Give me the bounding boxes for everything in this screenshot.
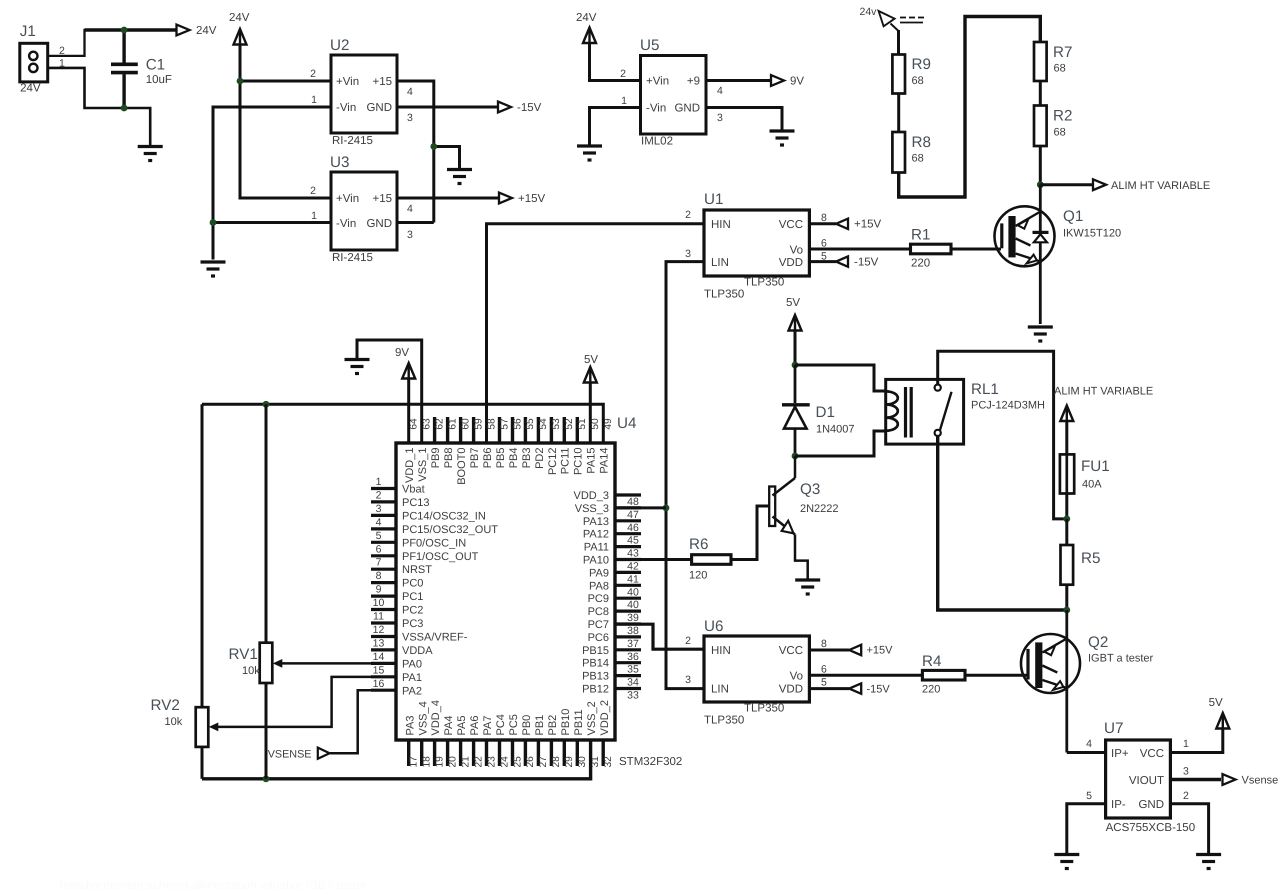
resistor R5: [1061, 545, 1074, 585]
svg-text:-Vin: -Vin: [336, 218, 356, 230]
svg-text:120: 120: [689, 570, 707, 582]
svg-text:2N2222: 2N2222: [800, 503, 839, 515]
svg-text:U3: U3: [330, 154, 349, 171]
svg-text:PB6: PB6: [482, 448, 494, 469]
power arrow 24V (U5): [583, 28, 596, 44]
svg-text:20: 20: [447, 756, 458, 768]
resistor R1: [911, 244, 952, 254]
junction RV1 top: [263, 401, 270, 408]
wire Q2 collector-emitter vertical: [1065, 610, 1068, 753]
ground (U7 GND): [1196, 855, 1221, 869]
net arrow -15V in (U1): [836, 256, 848, 266]
svg-text:+Vin: +Vin: [336, 193, 359, 205]
svg-text:VDDA: VDDA: [402, 645, 433, 657]
svg-text:VDD_2: VDD_2: [599, 700, 611, 735]
svg-text:VSS_2: VSS_2: [586, 701, 598, 735]
svg-text:Vsense: Vsense: [1242, 775, 1279, 787]
svg-text:68: 68: [1054, 63, 1066, 75]
svg-text:PA13: PA13: [583, 516, 609, 528]
svg-text:D1: D1: [816, 404, 835, 421]
svg-text:TLP350: TLP350: [704, 715, 744, 727]
svg-text:PC1: PC1: [402, 591, 423, 603]
svg-text:-15V: -15V: [517, 102, 542, 114]
wire to mid ground: [434, 147, 460, 170]
svg-text:PC12: PC12: [547, 448, 559, 476]
svg-text:R9: R9: [912, 56, 931, 73]
svg-text:VDD_3: VDD_3: [574, 490, 609, 502]
svg-text:4: 4: [407, 203, 413, 215]
svg-text:32: 32: [603, 756, 614, 768]
ground (Q1 emitter): [1028, 327, 1053, 341]
wire U5 GND to ground: [706, 108, 782, 132]
svg-text:VDD_4: VDD_4: [430, 700, 442, 735]
svg-text:24V: 24V: [20, 83, 41, 95]
RV2 wiper arrow: [209, 723, 219, 732]
svg-text:2: 2: [310, 68, 316, 80]
wire FU1 to R5 node: [1065, 494, 1068, 519]
wire 24V down to U3 +Vin: [240, 45, 331, 199]
wire 5V rail to PA14: [202, 404, 603, 443]
wire U7 GND to ground: [1170, 804, 1208, 853]
fuse FU1: [1060, 454, 1074, 493]
transistor Q1: [995, 206, 1055, 266]
net arrow +15V in (U6): [849, 645, 861, 655]
junction C1 bottom: [121, 105, 128, 112]
svg-text:9V: 9V: [790, 76, 804, 88]
DC-DC converter U3: [331, 172, 397, 250]
svg-text:FU1: FU1: [1081, 458, 1110, 475]
junction RV1 bottom: [263, 775, 270, 782]
svg-text:24V: 24V: [576, 12, 597, 24]
svg-text:VIOUT: VIOUT: [1129, 775, 1164, 787]
wire 24V to U2 +Vin: [240, 80, 331, 83]
svg-text:5: 5: [821, 677, 827, 689]
svg-text:PC15/OSC32_OUT: PC15/OSC32_OUT: [402, 524, 498, 536]
svg-text:U1: U1: [704, 191, 723, 208]
wire U7 IP- to ground: [1067, 804, 1106, 853]
diode D1: [782, 365, 810, 456]
svg-text:PA6: PA6: [469, 716, 481, 736]
svg-text:PA4: PA4: [443, 716, 455, 736]
svg-text:R7: R7: [1053, 44, 1072, 61]
junction -Vin rail: [210, 219, 217, 226]
svg-text:38: 38: [627, 625, 639, 637]
svg-text:ALIM HT VARIABLE: ALIM HT VARIABLE: [1111, 180, 1210, 192]
svg-text:TLP350: TLP350: [744, 277, 784, 289]
svg-text:R8: R8: [912, 134, 931, 151]
net arrow VSENSE: [318, 748, 330, 759]
svg-text:ACS755XCB-150: ACS755XCB-150: [1106, 822, 1196, 834]
svg-text:PA8: PA8: [589, 580, 609, 592]
svg-text:U4: U4: [617, 415, 636, 432]
wire U3 +15 to +15V flag: [397, 197, 499, 200]
svg-text:2: 2: [685, 209, 691, 221]
svg-text:28: 28: [551, 756, 562, 768]
svg-text:TLP350: TLP350: [744, 703, 784, 715]
wire U6 Vo to R4: [809, 674, 922, 677]
svg-text:41: 41: [627, 573, 639, 585]
svg-text:R2: R2: [1053, 108, 1072, 125]
svg-text:TLP350: TLP350: [704, 289, 744, 301]
svg-text:R4: R4: [922, 653, 941, 670]
svg-text:PB14: PB14: [582, 658, 609, 670]
svg-text:2: 2: [685, 635, 691, 647]
svg-text:55: 55: [525, 418, 536, 430]
svg-text:VDD: VDD: [779, 257, 803, 269]
svg-text:3: 3: [717, 112, 723, 124]
wire D1 top to relay coil: [795, 365, 887, 391]
svg-text:IGBT a tester: IGBT a tester: [1088, 653, 1154, 665]
svg-text:VSS_3: VSS_3: [575, 503, 609, 515]
wire U4 VSS_3 to LIN rail: [615, 506, 666, 509]
wire relay NO contact loop: [938, 351, 1067, 519]
svg-text:RV1: RV1: [229, 646, 258, 663]
svg-text:PB4: PB4: [508, 448, 520, 469]
ground (U5 GND): [770, 131, 795, 145]
svg-text:+15V: +15V: [518, 193, 546, 205]
svg-text:Q3: Q3: [800, 481, 820, 498]
svg-text:220: 220: [911, 258, 930, 270]
wire left rail lower: [201, 747, 204, 779]
svg-text:5: 5: [1086, 790, 1092, 802]
svg-text:1N4007: 1N4007: [816, 424, 855, 436]
svg-text:27: 27: [538, 756, 549, 768]
svg-text:RI-2415: RI-2415: [332, 135, 373, 147]
svg-text:2: 2: [620, 68, 626, 80]
svg-text:PA7: PA7: [482, 716, 494, 736]
svg-text:+15V: +15V: [867, 645, 894, 657]
wire Q3 collector: [794, 456, 797, 478]
wire U1 VDD to -15V: [809, 260, 836, 263]
svg-text:U2: U2: [330, 37, 349, 54]
svg-text:60: 60: [460, 418, 471, 430]
svg-text:24V: 24V: [229, 12, 250, 24]
net arrow Vsense: [1223, 774, 1236, 785]
svg-text:GND: GND: [1138, 799, 1164, 811]
svg-text:-15V: -15V: [854, 257, 879, 269]
wire Q1 collector-emitter vertical: [1039, 185, 1042, 324]
junction FU1/R5: [1063, 516, 1070, 523]
svg-text:PA9: PA9: [589, 567, 609, 579]
power arrow 24V (U2): [234, 29, 247, 45]
wire R2 to Q1 collector node: [1039, 146, 1042, 185]
svg-text:24V: 24V: [196, 25, 217, 37]
wire R5 to node: [1065, 585, 1068, 610]
net arrow 24V out: [177, 25, 190, 36]
svg-text:16: 16: [373, 678, 385, 690]
resistor R8: [892, 132, 905, 173]
svg-text:8: 8: [821, 212, 827, 224]
potentiometer RV1: [260, 643, 273, 683]
svg-text:PA0: PA0: [402, 658, 422, 670]
svg-text:PC8: PC8: [588, 606, 609, 618]
svg-text:5V: 5V: [584, 354, 598, 366]
wire Q3 emitter to ground: [795, 535, 808, 580]
svg-text:Q1: Q1: [1063, 208, 1083, 225]
potentiometer RV2: [196, 707, 209, 747]
wire 24v flag to R9: [897, 30, 900, 55]
svg-text:STM32F302: STM32F302: [619, 756, 682, 768]
wire U3 -Vin to ground rail: [213, 221, 331, 224]
svg-text:1: 1: [311, 94, 317, 106]
wire relay common to R5 node: [938, 436, 1067, 610]
svg-text:R6: R6: [689, 536, 708, 553]
net arrow +15V: [499, 193, 512, 204]
wire 9V to U4 VDD_1: [407, 379, 410, 443]
optocoupler U1: [704, 210, 809, 276]
svg-text:68: 68: [912, 153, 924, 165]
wire J1 pin1 to ground: [48, 68, 151, 147]
svg-text:40: 40: [627, 586, 639, 598]
svg-text:54: 54: [538, 418, 549, 430]
svg-text:36: 36: [627, 651, 639, 663]
svg-text:C1: C1: [146, 56, 165, 73]
svg-text:4: 4: [407, 86, 413, 98]
svg-text:29: 29: [564, 756, 575, 768]
wire U4 PA0 to RV1 wiper: [281, 662, 371, 665]
svg-text:68: 68: [912, 75, 924, 87]
svg-text:VDD_1: VDD_1: [404, 448, 416, 483]
svg-text:58: 58: [486, 418, 497, 430]
wire Q2 emitter to U7 IP+: [1067, 751, 1106, 754]
svg-text:+15V: +15V: [854, 219, 882, 231]
svg-text:PC13: PC13: [402, 497, 430, 509]
svg-text:1: 1: [1183, 738, 1189, 750]
svg-text:2: 2: [1183, 790, 1189, 802]
svg-text:24: 24: [499, 756, 510, 768]
optocoupler U6: [704, 636, 809, 702]
resistor R9: [892, 55, 905, 94]
junction ALIM node: [1037, 181, 1044, 188]
svg-text:3: 3: [407, 229, 413, 241]
svg-text:PC14/OSC32_IN: PC14/OSC32_IN: [402, 510, 486, 522]
svg-text:-15V: -15V: [867, 684, 891, 696]
svg-text:3: 3: [376, 503, 382, 515]
power arrow 5V (relay): [789, 315, 802, 331]
ground (Q3): [795, 580, 820, 594]
svg-text:57: 57: [499, 418, 510, 430]
svg-text:U6: U6: [704, 618, 723, 635]
svg-text:4: 4: [376, 516, 382, 528]
svg-text:18: 18: [421, 756, 432, 768]
wire U1 HIN to U4 PB6: [487, 224, 705, 443]
svg-text:+15: +15: [372, 76, 392, 88]
svg-text:Vo: Vo: [790, 245, 803, 257]
svg-text:PB7: PB7: [469, 448, 481, 469]
svg-text:25: 25: [512, 756, 523, 768]
svg-text:10: 10: [373, 597, 385, 609]
net arrow -15V in (U6): [849, 683, 861, 693]
svg-text:VCC: VCC: [779, 645, 803, 657]
wire U6 VCC to +15V: [809, 649, 849, 652]
ground (U2 chain): [447, 170, 472, 184]
svg-text:34: 34: [627, 677, 639, 689]
svg-text:GND: GND: [674, 103, 700, 115]
svg-text:RV2: RV2: [151, 697, 180, 714]
svg-text:9: 9: [376, 584, 382, 596]
wire R6 to Q3 base: [731, 506, 771, 560]
svg-text:-Vin: -Vin: [336, 102, 356, 114]
wire D1 bottom to relay coil: [795, 431, 887, 456]
svg-text:PA2: PA2: [402, 685, 422, 697]
wire 5V to D1 node: [794, 331, 797, 365]
svg-text:PC6: PC6: [588, 632, 609, 644]
svg-text:Q2: Q2: [1088, 634, 1108, 651]
junction D1 bottom / Q3 collector: [792, 453, 799, 460]
svg-text:LIN: LIN: [711, 257, 729, 269]
svg-text:1: 1: [376, 476, 382, 488]
svg-text:46: 46: [627, 522, 639, 534]
capacitor C1: [111, 29, 138, 108]
svg-text:PD2: PD2: [534, 448, 546, 469]
net arrow 9V: [771, 75, 784, 86]
svg-text:15: 15: [373, 664, 385, 676]
svg-text:RL1: RL1: [971, 381, 999, 398]
net arrow +15V in (U1): [836, 219, 848, 229]
svg-text:GND: GND: [366, 102, 392, 114]
svg-text:IKW15T120: IKW15T120: [1063, 228, 1121, 240]
wire left rail upper: [201, 404, 204, 707]
svg-text:VCC: VCC: [1140, 748, 1164, 760]
connector J1: [20, 43, 48, 82]
svg-text:U5: U5: [640, 37, 659, 54]
wire R4 to Q2 gate: [965, 674, 1027, 677]
svg-text:PA14: PA14: [599, 448, 611, 474]
svg-text:39: 39: [627, 612, 639, 624]
wire U1 LIN / U6 LIN rail: [666, 262, 704, 689]
svg-text:56: 56: [512, 418, 523, 430]
svg-text:43: 43: [627, 548, 639, 560]
svg-text:PA15: PA15: [586, 448, 598, 474]
svg-text:5V: 5V: [1209, 697, 1223, 709]
wire U5 +9 to 9V flag: [706, 79, 771, 82]
resistor R2: [1034, 106, 1047, 147]
svg-text:VSS_4: VSS_4: [417, 701, 429, 735]
svg-text:PB3: PB3: [521, 448, 533, 469]
svg-text:PB1: PB1: [534, 715, 546, 736]
svg-text:PB2: PB2: [547, 715, 559, 736]
svg-text:47: 47: [627, 509, 639, 521]
ground (U5 -Vin): [577, 146, 602, 160]
svg-text:3: 3: [685, 674, 691, 686]
svg-text:1: 1: [621, 95, 627, 107]
svg-text:2: 2: [376, 489, 382, 501]
svg-text:PC11: PC11: [560, 448, 572, 475]
U4 bottom pin stubs: [407, 740, 410, 766]
wire U1 Vo to R1: [809, 248, 910, 251]
wire U4 VSS_1 to ground: [357, 340, 422, 443]
svg-text:PC7: PC7: [588, 619, 609, 631]
svg-text:HIN: HIN: [711, 219, 731, 231]
svg-text:4: 4: [717, 85, 723, 97]
wire R7 to R2: [1039, 81, 1042, 106]
svg-text:ALIM HT VARIABLE: ALIM HT VARIABLE: [1054, 386, 1153, 398]
svg-text:+Vin: +Vin: [646, 76, 669, 88]
wire R9 to R8: [897, 94, 900, 133]
wire U2 -Vin to ground rail: [213, 107, 331, 260]
svg-text:5: 5: [376, 530, 382, 542]
svg-text:40: 40: [627, 599, 639, 611]
svg-text:PA10: PA10: [583, 555, 609, 567]
wire U2 GND to -15V flag: [397, 106, 498, 109]
svg-text:8: 8: [376, 570, 382, 582]
svg-text:PB15: PB15: [582, 645, 609, 657]
svg-text:24v: 24v: [860, 6, 878, 18]
svg-text:30: 30: [577, 756, 588, 768]
net arrow ALIM HT VARIABLE: [1093, 179, 1106, 190]
svg-text:35: 35: [627, 664, 639, 676]
svg-text:PC5: PC5: [508, 714, 520, 735]
svg-text:26: 26: [525, 756, 536, 768]
ground (J1/C1): [138, 147, 163, 161]
svg-text:23: 23: [486, 756, 497, 768]
svg-text:GND: GND: [366, 218, 392, 230]
svg-text:R1: R1: [911, 227, 930, 244]
svg-text:14: 14: [373, 651, 385, 663]
wire 24V to U5 +Vin: [590, 43, 641, 81]
svg-text:PA5: PA5: [456, 716, 468, 736]
wire 5V to U4 PA15: [589, 383, 592, 443]
svg-text:PA1: PA1: [402, 672, 422, 684]
svg-text:13: 13: [373, 637, 385, 649]
wire U7 VIOUT to Vsense: [1170, 778, 1221, 781]
svg-text:PC3: PC3: [402, 618, 423, 630]
svg-text:PA12: PA12: [583, 529, 609, 541]
wire U4 PA10 to R6: [615, 558, 692, 561]
svg-text:52: 52: [564, 418, 575, 430]
svg-text:1: 1: [311, 210, 317, 222]
svg-text:PC0: PC0: [402, 578, 423, 590]
svg-text:PF1/OSC_OUT: PF1/OSC_OUT: [402, 551, 479, 563]
svg-text:62: 62: [434, 418, 445, 430]
svg-text:PA3: PA3: [404, 716, 416, 736]
transistor Q2: [1021, 634, 1080, 693]
svg-text:37: 37: [627, 638, 639, 650]
wire ALIM to FU1: [1065, 421, 1068, 455]
svg-text:17: 17: [409, 756, 420, 768]
wire U5 -Vin to ground: [590, 108, 641, 147]
svg-text:3: 3: [1183, 766, 1189, 778]
svg-text:PB12: PB12: [582, 684, 609, 696]
svg-text:51: 51: [577, 418, 588, 430]
transistor Q3: [769, 478, 795, 535]
svg-text:Vo: Vo: [790, 671, 803, 683]
svg-text:HIN: HIN: [711, 645, 731, 657]
svg-text:PB11: PB11: [573, 709, 585, 735]
svg-text:6: 6: [376, 543, 382, 555]
svg-text:9V: 9V: [395, 347, 409, 359]
svg-text:PB8: PB8: [443, 448, 455, 469]
svg-text:10k: 10k: [165, 716, 183, 728]
svg-text:3: 3: [685, 248, 691, 260]
power arrow 5V (U4): [584, 367, 597, 383]
svg-text:40A: 40A: [1082, 479, 1102, 491]
wire bottom rail to VSS_2: [202, 740, 591, 779]
svg-text:PB10: PB10: [560, 709, 572, 736]
svg-text:220: 220: [922, 684, 940, 696]
svg-text:22: 22: [473, 756, 484, 768]
svg-text:48: 48: [627, 496, 639, 508]
svg-text:3: 3: [407, 112, 413, 124]
svg-text:8: 8: [821, 638, 827, 650]
svg-text:-Vin: -Vin: [646, 103, 666, 115]
svg-text:PC10: PC10: [573, 448, 585, 476]
svg-text:VCC: VCC: [779, 219, 803, 231]
svg-text:21: 21: [460, 756, 471, 768]
svg-text:+15: +15: [372, 193, 392, 205]
svg-text:61: 61: [447, 418, 458, 430]
svg-text:68: 68: [1054, 127, 1066, 139]
